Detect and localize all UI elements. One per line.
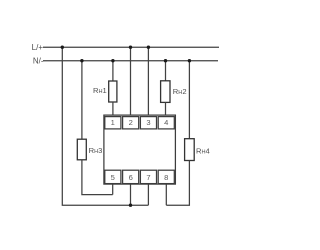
terminal box 5 <box>105 170 121 183</box>
svg-text:8: 8 <box>164 173 168 182</box>
svg-text:RH2: RH2 <box>173 87 187 96</box>
node junction N/- x113 <box>111 59 114 62</box>
terminal box 1 <box>105 117 121 129</box>
wire L/+ to terminal 3 <box>147 47 149 115</box>
terminal box 2 <box>123 117 139 129</box>
power rail L/+ <box>32 43 219 52</box>
node junction L/+ x62 <box>61 46 64 49</box>
svg-text:3: 3 <box>146 118 150 127</box>
terminal box 8 <box>158 170 174 183</box>
svg-text:1: 1 <box>111 118 115 127</box>
terminal box 6 <box>123 170 139 183</box>
wire terminal 7 to bottom bus <box>147 184 149 205</box>
wire RH3 to terminal 5 <box>112 184 114 195</box>
node junction N/- x82 <box>80 59 83 62</box>
svg-text:RH1: RH1 <box>93 86 107 95</box>
node junction L/+ x130 <box>129 46 132 49</box>
resistor RH3 <box>77 61 112 195</box>
terminal box 3 <box>140 117 156 129</box>
wire RH4 to terminal 8 <box>165 184 167 205</box>
svg-text:2: 2 <box>129 118 133 127</box>
terminal box 4 <box>158 117 174 129</box>
resistor RH4 <box>166 61 209 206</box>
node junction N/- x165 <box>164 59 167 62</box>
wire terminal 6 to bottom bus <box>130 184 132 205</box>
terminal box 7 <box>140 170 156 183</box>
svg-text:5: 5 <box>111 173 115 182</box>
svg-text:L/+: L/+ <box>32 43 44 52</box>
svg-text:4: 4 <box>164 118 168 127</box>
resistor RH1 <box>93 61 117 115</box>
node junction L/+ x148 <box>147 46 150 49</box>
resistor RH2 <box>161 61 187 115</box>
node junction N/- x189 <box>188 59 191 62</box>
svg-text:RH4: RH4 <box>196 146 210 155</box>
power rail N/- <box>33 56 218 65</box>
node junction bottom bus <box>129 204 132 207</box>
svg-text:7: 7 <box>146 173 150 182</box>
wire L/+ to terminal 2 <box>130 47 132 115</box>
svg-text:N/-: N/- <box>33 56 44 65</box>
wire L/+ left drop to bottom bus <box>62 47 148 205</box>
svg-text:6: 6 <box>129 173 133 182</box>
svg-text:RH3: RH3 <box>89 146 103 155</box>
relay device block U1 <box>104 115 175 184</box>
